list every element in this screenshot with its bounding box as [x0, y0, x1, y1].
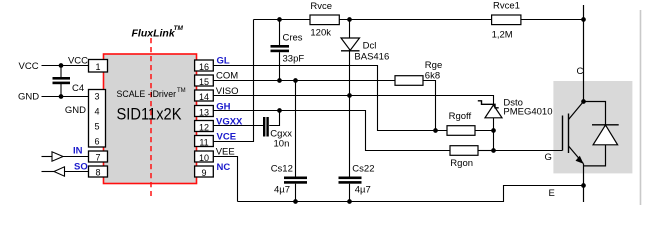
svg-text:Rvce1: Rvce1: [493, 1, 520, 12]
svg-text:VEE: VEE: [216, 147, 235, 158]
IC body SID11x2K: [104, 54, 197, 184]
red dashed isolation line: [150, 38, 152, 196]
node GH/Cgxx: [277, 108, 282, 113]
svg-text:GND: GND: [18, 92, 39, 103]
svg-text:1: 1: [95, 62, 100, 72]
svg-text:14: 14: [199, 92, 209, 102]
svg-text:120k: 120k: [310, 28, 331, 39]
wire GH: pin13 right, down at 365, to Rgon: [213, 111, 450, 151]
node VISO/Dcl: [347, 93, 352, 98]
capacitor Cs22: [339, 96, 375, 202]
wire emitter stub: [583, 186, 585, 203]
svg-text:Rgoff: Rgoff: [449, 111, 472, 122]
node Rge/Rgoff wire: [433, 128, 438, 133]
svg-text:6k8: 6k8: [425, 71, 440, 82]
node Rgon/gate: [491, 148, 496, 153]
resistor Rge: [395, 60, 442, 85]
svg-text:G: G: [545, 152, 552, 163]
wire VISO: pin14 right, corner down at 493.6 to Dsto: [213, 96, 493, 107]
pin 1: [89, 60, 108, 73]
resistor Rgon: [450, 146, 494, 169]
svg-text:TM: TM: [174, 25, 184, 32]
svg-text:11: 11: [199, 138, 208, 148]
diode Dsto PMEG4010: [478, 98, 553, 151]
diode Dcl BAS416: [341, 20, 389, 96]
node GND junction: [59, 94, 64, 99]
svg-text:12: 12: [199, 123, 209, 133]
svg-text:Dcl: Dcl: [363, 41, 377, 52]
wire gate to IGBT: [494, 150, 563, 152]
svg-text:Rgon: Rgon: [450, 158, 473, 169]
pin 12: [195, 121, 214, 133]
transistor IGBT: [563, 102, 584, 186]
pin 15: [195, 75, 214, 87]
pin 10: [195, 151, 214, 163]
node COM/Cs12: [293, 78, 298, 83]
svg-text:4: 4: [94, 107, 99, 117]
wire COM: pin15 to Rge: [213, 80, 395, 82]
node VCC junction: [59, 63, 64, 68]
svg-text:Rvce: Rvce: [310, 1, 332, 12]
node COM/Cres: [277, 78, 282, 83]
svg-text:8: 8: [95, 168, 100, 178]
wire VCE: pin11 right, up at 253.5 to top wire: [213, 20, 253, 142]
node bus/Cs12: [293, 199, 298, 204]
wire Rge to Rgoff node: [423, 81, 436, 131]
svg-text:IN: IN: [73, 146, 83, 157]
wire collector rail: [583, 5, 585, 102]
svg-text:6: 6: [94, 137, 99, 147]
capacitor Cgxx: [263, 111, 292, 150]
diode freewheel: [584, 102, 619, 166]
node Rgoff/Dsto: [491, 128, 496, 133]
svg-text:GND: GND: [65, 105, 86, 116]
svg-text:SO: SO: [74, 162, 88, 173]
node top/collector: [581, 17, 586, 22]
svg-text:4µ7: 4µ7: [274, 185, 290, 196]
svg-text:SID11x2K: SID11x2K: [117, 105, 183, 124]
svg-text:33pF: 33pF: [283, 54, 305, 65]
wire top VCE-sense rail: [254, 19, 584, 21]
svg-text:NC: NC: [217, 162, 231, 173]
page edge line: [640, 10, 642, 205]
svg-text:4µ7: 4µ7: [355, 185, 371, 196]
resistor Rvce1: [492, 1, 521, 41]
node top/Dcl: [347, 17, 352, 22]
capacitor Cs12: [271, 81, 307, 202]
wire GL: pin16 right, down at 378, to Rgoff: [213, 66, 447, 131]
svg-text:Cres: Cres: [283, 33, 303, 44]
svg-text:VCE: VCE: [217, 132, 237, 143]
pin 16: [195, 60, 214, 72]
svg-text:7: 7: [95, 153, 100, 163]
pin 9: [195, 166, 214, 178]
capacitor C4: [53, 66, 85, 97]
svg-text:10n: 10n: [274, 139, 290, 150]
svg-text:3: 3: [94, 92, 99, 102]
wire SO with buffer symbol: [42, 162, 89, 177]
svg-text:VCC: VCC: [19, 61, 39, 72]
svg-text:16: 16: [199, 62, 209, 72]
svg-text:PMEG4010: PMEG4010: [503, 107, 552, 118]
svg-text:C: C: [577, 66, 584, 77]
node bus/Cs22: [347, 199, 352, 204]
svg-text:Cs12: Cs12: [271, 164, 293, 175]
capacitor Cres: [271, 20, 305, 81]
svg-text:10: 10: [199, 153, 209, 163]
svg-text:1,2M: 1,2M: [492, 30, 513, 41]
svg-text:TM: TM: [177, 88, 186, 94]
svg-text:BAS416: BAS416: [354, 52, 389, 63]
svg-text:Rge: Rge: [425, 60, 442, 71]
svg-text:COM: COM: [216, 71, 238, 82]
svg-text:Cs22: Cs22: [352, 164, 374, 175]
svg-text:13: 13: [199, 108, 209, 118]
pins 3-6 box: [89, 90, 106, 148]
svg-text:C4: C4: [72, 83, 84, 94]
resistor Rgoff: [447, 111, 494, 135]
resistor Rvce: [310, 1, 339, 39]
svg-text:5: 5: [94, 122, 99, 132]
svg-text:VCC: VCC: [68, 56, 88, 67]
svg-text:FluxLink: FluxLink: [132, 28, 176, 40]
svg-text:GL: GL: [217, 56, 230, 67]
svg-text:SCALE -iDriver: SCALE -iDriver: [117, 89, 177, 99]
node collector junction: [581, 99, 586, 104]
svg-text:9: 9: [201, 168, 206, 178]
wire bottom VEE bus: [238, 186, 584, 202]
svg-text:15: 15: [199, 77, 209, 87]
pin 11: [195, 136, 214, 148]
node emitter junction: [581, 183, 586, 188]
wire GND: [42, 96, 89, 98]
node top/Cres: [277, 17, 282, 22]
wire VCC: [42, 65, 89, 67]
pin 8: [89, 166, 108, 178]
svg-text:E: E: [549, 188, 555, 199]
wire VGXX: pin12 to Cgxx: [213, 125, 263, 127]
pin 14: [195, 90, 214, 102]
IGBT module gray box: [553, 81, 632, 173]
pin 7: [89, 151, 108, 163]
wire IN with buffer symbol: [42, 146, 89, 162]
wire VEE: pin10 right, down at 237 to bottom bus: [213, 157, 237, 202]
pin 13: [195, 106, 214, 118]
